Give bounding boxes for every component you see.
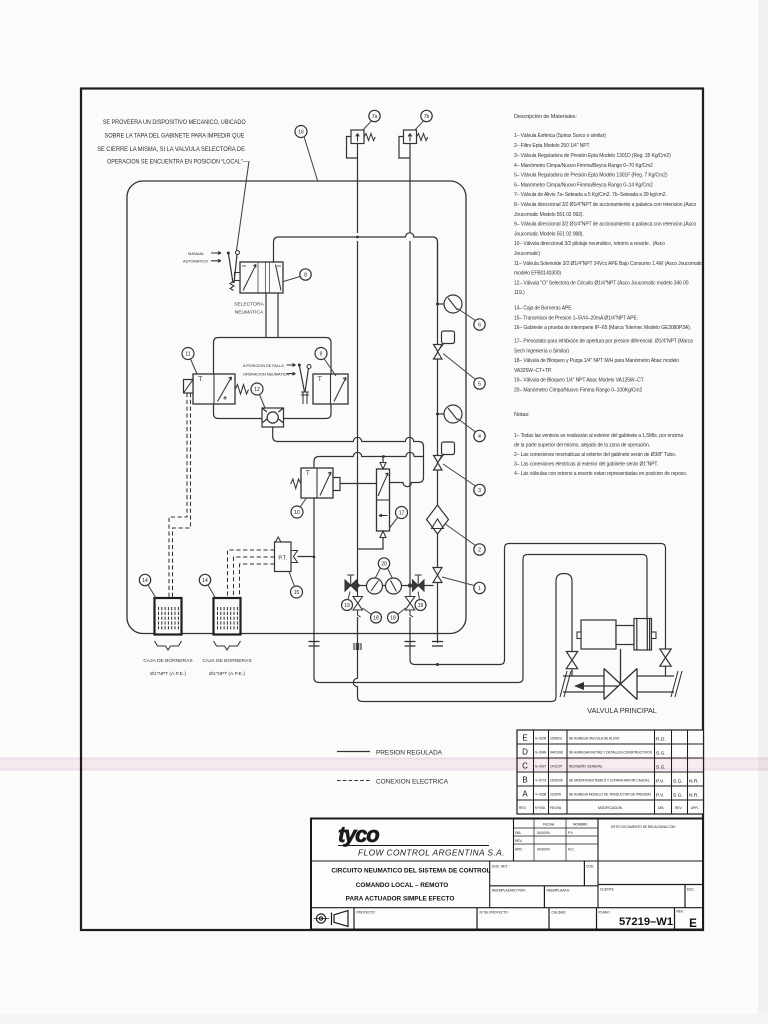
balloon 18 left	[363, 608, 382, 623]
wire: 7b drop line	[409, 144, 411, 233]
svg-text:REEMPLAZA A:: REEMPLAZA A:	[547, 889, 570, 893]
svg-text:15: 15	[294, 590, 300, 596]
presostato 17	[358, 457, 390, 550]
svg-text:OPERACION SE ENCUENTRA EN POSI: OPERACION SE ENCUENTRA EN POSICION “LOCA…	[107, 159, 249, 166]
valvula esferica 1	[433, 568, 442, 583]
note: caja de borneras captions	[143, 658, 252, 677]
projection symbol	[314, 911, 349, 927]
svg-text:Descripción de Materiales:: Descripción de Materiales:	[514, 114, 577, 120]
svg-text:D: D	[522, 748, 528, 757]
doc ret box	[490, 861, 598, 908]
svg-text:REV.: REV.	[677, 910, 685, 914]
svg-text:ESC.: ESC.	[687, 888, 695, 892]
svg-text:Y–0773: Y–0773	[535, 779, 546, 783]
globe valve left of main valve	[566, 652, 577, 677]
note: a posicion de falla labels	[243, 364, 296, 377]
legend: presion regulada	[337, 750, 443, 757]
svg-text:4– Manómetro Cimpa/Nuovo Fimma: 4– Manómetro Cimpa/Nuovo Fimma/Beyca Ran…	[514, 163, 653, 169]
drawing sheet title	[331, 868, 490, 903]
svg-text:S.G.: S.G.	[673, 793, 683, 799]
svg-text:20: 20	[381, 562, 387, 568]
tyco logo	[338, 822, 505, 858]
svg-text:FECHA: FECHA	[550, 806, 562, 810]
relief valve 7b	[399, 130, 428, 158]
balloon 19 right	[415, 592, 426, 611]
wire: header line y=237 from selector to main column, hump over 7b	[274, 233, 438, 304]
svg-text:Joucomatic): Joucomatic)	[514, 251, 540, 257]
svg-text:N.R.: N.R.	[689, 779, 699, 785]
svg-text:6: 6	[478, 323, 481, 329]
svg-text:16– Gabinete a prueba de intem: 16– Gabinete a prueba de intemperie IP–6…	[514, 325, 691, 331]
svg-text:14: 14	[202, 578, 208, 584]
svg-text:4: 4	[478, 434, 481, 440]
note: selectora neumatica caption	[234, 302, 264, 316]
revision table	[517, 730, 704, 814]
svg-text:9– Válvula direccional 3/2 Ø1/: 9– Válvula direccional 3/2 Ø1/4"NPT de a…	[514, 222, 696, 228]
wire: line L2 to actuator spring side	[319, 555, 647, 683]
svg-text:7a: 7a	[372, 114, 378, 120]
signature table	[514, 819, 599, 862]
svg-text:Nº IND.: Nº IND.	[535, 806, 546, 810]
filtro 2	[427, 505, 449, 534]
manometro 20 right gauge	[386, 578, 402, 594]
balloon 17	[390, 507, 408, 529]
lever of valve 9	[298, 364, 311, 405]
block valve 19 right	[413, 575, 425, 591]
svg-text:2: 2	[478, 548, 481, 554]
svg-text:SELECTORA: SELECTORA	[234, 302, 264, 308]
svg-text:APR.: APR.	[515, 848, 523, 852]
svg-text:N.R.: N.R.	[689, 793, 699, 799]
balloon 14 box1	[139, 574, 156, 598]
relief valve 7a	[347, 130, 376, 158]
svg-text:R.D.: R.D.	[656, 737, 666, 743]
svg-text:12: 12	[254, 387, 260, 393]
svg-text:E: E	[689, 918, 697, 930]
svg-text:119.): 119.)	[514, 290, 525, 296]
svg-text:modelo EFB0140300): modelo EFB0140300)	[514, 271, 561, 277]
svg-text:de la parte superior del mismo: de la parte superior del mismo, alejado …	[514, 443, 650, 449]
svg-text:14: 14	[142, 578, 148, 584]
balloon 20	[375, 558, 393, 579]
svg-text:COD.: COD.	[586, 865, 594, 869]
wire: valves 11 and 9 outputs to shuttle valve 12	[214, 404, 332, 419]
svg-text:SOBRE LA TAPA DEL GABINETE PAR: SOBRE LA TAPA DEL GABINETE PARA IMPEDIR …	[105, 133, 245, 140]
svg-text:7b: 7b	[424, 114, 430, 120]
svg-text:ESTE DOCUMENTO SE RELACIONA CO: ESTE DOCUMENTO SE RELACIONA CON:	[611, 825, 676, 829]
svg-text:20– Manómetro Cimpa/Nuovo Fimm: 20– Manómetro Cimpa/Nuovo Fimma Rango 0–…	[514, 388, 643, 394]
shuttle valve 12	[262, 408, 284, 427]
balloon 12	[251, 383, 265, 408]
wire: line L3 to left globe valve	[363, 574, 573, 702]
svg-text:AUTOMATICO: AUTOMATICO	[183, 260, 208, 264]
svg-text:CLIENTE: CLIENTE	[600, 888, 615, 892]
svg-text:REV.: REV.	[519, 806, 527, 810]
bulkhead fitting at x=437.5	[432, 642, 443, 647]
svg-text:Ø1"NPT (A.P.E.): Ø1"NPT (A.P.E.)	[209, 671, 245, 677]
svg-text:SE AGREGAN NOTAS Y DETALLES CO: SE AGREGAN NOTAS Y DETALLES CONSTRUCTIVO…	[569, 751, 653, 755]
pipe left	[560, 671, 604, 697]
svg-text:S.G.: S.G.	[673, 779, 683, 785]
bulkhead fitting at x=314	[309, 642, 320, 647]
wire: shuttle 12 output line to pilot circuit with humps	[273, 427, 424, 487]
scanner pink band artifact	[0, 758, 768, 771]
balloon 8	[284, 269, 312, 282]
title block outer	[311, 819, 703, 930]
svg-text:04/10/04: 04/10/04	[537, 848, 550, 852]
pipe right	[637, 671, 682, 697]
svg-text:PLANO: PLANO	[599, 911, 611, 915]
svg-text:Sech Ingeniería o Similar): Sech Ingeniería o Similar)	[514, 348, 569, 354]
svg-text:REV.: REV.	[515, 839, 523, 843]
wire: electrical pair from solenoid 11 to borneras box 1	[169, 393, 191, 598]
balloon 15	[289, 572, 303, 599]
svg-text:COMANDO LOCAL – REMOTO: COMANDO LOCAL – REMOTO	[356, 882, 448, 889]
valvula principal body	[574, 669, 637, 700]
svg-text:NOMBRE: NOMBRE	[573, 823, 588, 827]
svg-text:REV.: REV.	[675, 806, 683, 810]
svg-text:10– Válvula direccional 3/2 p: 10– Válvula direccional 3/2 pilotaje neu…	[514, 241, 665, 247]
svg-text:18– Válvula de Bloqueo y Purga: 18– Válvula de Bloqueo y Purga 1/4" NPT …	[514, 358, 679, 364]
svg-text:SE PROVEERA UN DISPOSITIVO MEC: SE PROVEERA UN DISPOSITIVO MECANICO, UBI…	[103, 119, 246, 126]
wire: gauge manifold line	[345, 583, 438, 643]
svg-text:6– Manómetro Cimpa/Nuovo Fimma: 6– Manómetro Cimpa/Nuovo Fimma/Beyca Ran…	[514, 182, 653, 188]
wire: valve 10 output down to P.T. and bulkhead	[313, 498, 316, 643]
wire: distribution line to valves 11 and 9	[214, 338, 332, 375]
block valve 19 left	[345, 575, 357, 591]
svg-text:CAJA DE BORNERAS: CAJA DE BORNERAS	[202, 658, 252, 664]
svg-text:CAJA DE BORNERAS: CAJA DE BORNERAS	[143, 658, 193, 664]
manometro 4	[436, 405, 462, 423]
svg-text:S–0049: S–0049	[535, 751, 546, 755]
svg-text:VALVULA PRINCIPAL: VALVULA PRINCIPAL	[587, 706, 657, 715]
purge valve 18 right	[405, 586, 415, 618]
svg-text:CONEXION ELECTRICA: CONEXION ELECTRICA	[376, 779, 449, 786]
wire: main regulated pressure column x=437.5	[437, 242, 439, 586]
svg-text:PARA ACTUADOR SIMPLE EFECTO: PARA ACTUADOR SIMPLE EFECTO	[346, 896, 455, 903]
actuator spring chamber	[634, 619, 656, 651]
svg-text:P.V: P.V	[568, 831, 574, 835]
svg-text:8: 8	[304, 273, 307, 279]
balloon 7b	[415, 110, 432, 130]
bottom row dividers	[354, 908, 684, 930]
svg-text:11– Válvula Solenoide 3/2 Ø1/4: 11– Válvula Solenoide 3/2 Ø1/4"NPT 24Vcc…	[514, 261, 703, 267]
svg-text:REEMPLAZADO POR:: REEMPLAZADO POR:	[492, 889, 526, 893]
svg-text:5: 5	[478, 382, 481, 388]
svg-text:10: 10	[294, 510, 300, 516]
valve stem	[620, 649, 622, 685]
svg-text:19/10/05: 19/10/05	[550, 779, 563, 783]
note: material description list	[514, 114, 703, 394]
svg-text:NEUMATICA: NEUMATICA	[235, 310, 264, 316]
svg-text:19: 19	[344, 603, 350, 609]
svg-text:SE AGREGA MODELO DE TRADUCTOR: SE AGREGA MODELO DE TRADUCTOR DE PRESION	[569, 793, 651, 797]
balloon 18 right	[388, 608, 406, 623]
svg-text:17– Presostato para inhibición: 17– Presostato para inhibición de apertu…	[514, 339, 693, 345]
valve 8 selectora neumatica	[240, 262, 283, 293]
svg-text:SE CIERRE LA MISMA, SI LA VALV: SE CIERRE LA MISMA, SI LA VALVULA SELECT…	[97, 146, 245, 153]
valve 10 pilotada	[291, 468, 377, 498]
svg-text:SE MODIFICAN ITEMS 5 Y 10 PARA: SE MODIFICAN ITEMS 5 Y 10 PARA MAYOR CAU…	[569, 779, 650, 783]
balloon 1	[442, 577, 485, 594]
regulator valve 5	[434, 331, 455, 359]
svg-text:P.V.: P.V.	[656, 779, 664, 785]
balloon 11	[182, 348, 197, 375]
svg-text:4– Las válvulas con retorno a: 4– Las válvulas con retorno a resorte es…	[514, 471, 687, 477]
svg-text:3– Válvula Reguladora de Presi: 3– Válvula Reguladora de Presión Epta Mo…	[514, 153, 671, 159]
svg-text:MANUAL: MANUAL	[188, 252, 204, 256]
svg-text:04/01/08: 04/01/08	[550, 751, 563, 755]
svg-text:CIRCUITO NEUMATICO DEL SISTEMA: CIRCUITO NEUMATICO DEL SISTEMA DE CONTRO…	[331, 868, 490, 875]
svg-text:N.C.: N.C.	[568, 848, 575, 852]
svg-text:DOC. RET. :: DOC. RET. :	[492, 865, 510, 869]
svg-text:8– Válvula direccional 3/2 Ø1/: 8– Válvula direccional 3/2 Ø1/4"NPT de a…	[514, 202, 696, 208]
svg-text:MODIFICACION: MODIFICACION	[598, 806, 623, 810]
svg-text:B: B	[522, 776, 527, 785]
svg-text:Y–0268: Y–0268	[535, 793, 546, 797]
svg-text:1– Todas las venteos se realiz: 1– Todas las venteos se realizarán al ex…	[514, 433, 683, 439]
cliente and esc row	[600, 885, 695, 908]
svg-text:2– Las conexiones neumaticas a: 2– Las conexiones neumaticas al exterior…	[514, 452, 676, 458]
manometro 20 left gauge	[367, 578, 383, 594]
svg-text:Ø1"NPT (A.P.E.): Ø1"NPT (A.P.E.)	[150, 671, 186, 677]
plano number	[619, 916, 697, 930]
svg-text:16: 16	[298, 130, 304, 136]
wire: 7a line continues down to gauge manifold	[358, 241, 411, 586]
svg-text:1– Válvula Esférica (Spirax S: 1– Válvula Esférica (Spirax Sarco o simi…	[514, 133, 606, 139]
purge valve 18 left	[353, 586, 363, 618]
revision row D	[522, 748, 666, 757]
caja de borneras 14 box 2	[214, 598, 241, 635]
svg-text:Joucomatic Modelo 551 02 088).: Joucomatic Modelo 551 02 088).	[514, 231, 584, 237]
svg-text:10/06/11: 10/06/11	[550, 737, 563, 741]
transmisor P.T. 15	[275, 537, 315, 572]
legend: conexion electrica	[337, 779, 449, 786]
svg-text:57219–W1: 57219–W1	[619, 916, 673, 928]
note: valvula principal caption	[587, 706, 657, 715]
svg-text:5– Válvula Reguladora de Presi: 5– Válvula Reguladora de Presión Epta Mo…	[514, 173, 668, 179]
caja de borneras 14 box 1	[155, 598, 182, 635]
balloon 6	[458, 309, 486, 331]
svg-text:DIB.: DIB.	[658, 806, 664, 810]
balloon 5	[443, 354, 485, 390]
svg-text:22/3/05: 22/3/05	[550, 793, 561, 797]
svg-text:S–0209: S–0209	[535, 737, 546, 741]
revision row C	[522, 762, 666, 771]
svg-text:1: 1	[478, 586, 481, 592]
wire: leader from note to selector lever	[237, 161, 250, 251]
balloon 3	[443, 464, 485, 496]
lever of valve 8 with detent	[227, 251, 240, 291]
svg-text:FLOW CONTROL ARGENTINA S.A.: FLOW CONTROL ARGENTINA S.A.	[358, 848, 505, 858]
actuator cylinder	[577, 620, 634, 649]
svg-text:FECHA: FECHA	[543, 823, 555, 827]
svg-text:15– Transmisor de Presion 1–5V: 15– Transmisor de Presion 1–5V/4–20mA Ø1…	[514, 315, 638, 321]
svg-text:P.V.: P.V.	[656, 793, 664, 799]
svg-text:PRESION REGULADA: PRESION REGULADA	[376, 750, 443, 757]
gabinete 16 enclosure outline	[127, 181, 466, 634]
brace under box 1	[155, 641, 182, 650]
svg-text:04/10/04: 04/10/04	[537, 831, 550, 835]
bulkhead fitting at x=410	[405, 642, 416, 647]
svg-text:14– Caja de Borneras APE.: 14– Caja de Borneras APE.	[514, 306, 573, 312]
wire: line L1 to right globe valve	[415, 544, 666, 667]
svg-text:OPERACION NEUMATICA: OPERACION NEUMATICA	[243, 373, 289, 377]
revision row A	[522, 790, 698, 799]
svg-text:Notas:: Notas:	[514, 412, 530, 418]
revision header row	[519, 806, 699, 810]
svg-text:18: 18	[373, 616, 379, 622]
wire: electrical triple from P.T. 15 to borneras box 2	[228, 550, 275, 598]
svg-text:12– Válvula "O" Selectora de C: 12– Válvula "O" Selectora de Circuito Ø1…	[514, 280, 689, 286]
svg-text:2– Filtro Epta Modelo 250 1/4": 2– Filtro Epta Modelo 250 1/4" NPT	[514, 143, 589, 149]
balloon 16 (cabinet)	[295, 126, 318, 181]
balloon 2	[445, 524, 486, 556]
svg-text:CALIDAD: CALIDAD	[552, 911, 567, 915]
bulkhead fitting at x=357.5	[354, 643, 361, 650]
svg-text:DIB.: DIB.	[515, 831, 521, 835]
wire: pilot header y=456.5 over valve 10	[314, 452, 424, 468]
manometro 6	[436, 295, 462, 313]
balloon 19 left	[342, 592, 353, 611]
svg-text:3– Las conexiones electricas a: 3– Las conexiones electricas al exterior…	[514, 462, 658, 468]
svg-text:APR.: APR.	[691, 806, 699, 810]
note: manual/automatico labels	[183, 252, 221, 264]
svg-text:9: 9	[320, 352, 323, 358]
note: warning text block	[97, 119, 249, 166]
svg-text:S.G.: S.G.	[656, 751, 666, 757]
svg-text:19: 19	[418, 603, 424, 609]
svg-text:11: 11	[185, 352, 190, 358]
regulator valve 3	[434, 442, 455, 470]
svg-text:P.T.: P.T.	[278, 556, 287, 562]
svg-text:VA325W–CT+TP.: VA325W–CT+TP.	[514, 368, 552, 374]
balloon 10	[291, 498, 307, 518]
brace under box 2	[214, 641, 241, 650]
svg-text:19– Válvula de Bloqueo 1/4" NP: 19– Válvula de Bloqueo 1/4" NPT Abac Mod…	[514, 378, 644, 384]
svg-text:Joucomatic Modelo 551 02 092).: Joucomatic Modelo 551 02 092).	[514, 212, 584, 218]
svg-text:Nº DE PROYECTO: Nº DE PROYECTO	[480, 911, 509, 915]
svg-text:PROYECTO: PROYECTO	[357, 911, 376, 915]
este documento box	[598, 825, 703, 885]
svg-text:A POSICION DE FALLA: A POSICION DE FALLA	[243, 364, 284, 368]
valve 9 palanca	[313, 374, 348, 404]
svg-text:3: 3	[478, 488, 481, 494]
wire: selector outputs down to distribution line	[266, 293, 278, 338]
wire: 7a drop line	[357, 144, 359, 234]
globe valve right of main valve	[660, 649, 671, 676]
solenoid coil of valve 11	[184, 380, 194, 394]
balloon 14 box2	[199, 574, 215, 598]
balloon 7a	[363, 110, 380, 130]
balloon 4	[458, 419, 486, 442]
valve 11 solenoid	[193, 374, 249, 404]
svg-text:A: A	[522, 790, 528, 799]
svg-text:7– Válvula de Alivio 7a–Setea: 7– Válvula de Alivio 7a–Seteada a 5 Kg/C…	[514, 192, 667, 198]
svg-text:18: 18	[390, 616, 396, 622]
svg-text:E: E	[522, 734, 527, 743]
note: notes list	[514, 412, 687, 477]
revision row B	[522, 776, 698, 785]
revision row E	[522, 734, 665, 743]
drawing border frame	[81, 89, 703, 931]
svg-text:17: 17	[399, 511, 405, 517]
svg-text:tyco: tyco	[338, 822, 379, 847]
svg-text:SE AGREGA VALVULA DE ALIVIO: SE AGREGA VALVULA DE ALIVIO	[569, 737, 620, 741]
wire: purge 18 lines down through cabinet wall	[314, 617, 415, 702]
balloon 9	[315, 348, 336, 377]
